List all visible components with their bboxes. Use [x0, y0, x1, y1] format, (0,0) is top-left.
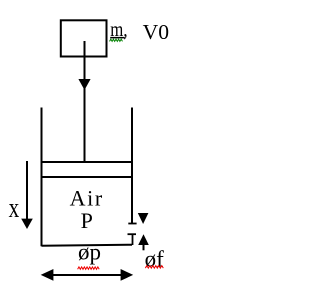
- velocity arrow shaft / piston rod wire: [84, 41, 86, 162]
- mass box m: [61, 20, 107, 56]
- cylinder right wall: [131, 108, 133, 224]
- orifice T mark bar: [128, 233, 137, 235]
- orifice T mark stem: [132, 234, 134, 245]
- piston top line: [42, 161, 133, 163]
- op right arrowhead: [121, 269, 134, 281]
- svg-text:P: P: [81, 208, 93, 233]
- orifice down triangle marker: [138, 213, 149, 224]
- orifice up triangle marker: [138, 234, 149, 245]
- svg-text:Air: Air: [70, 185, 104, 210]
- svg-text:øp: øp: [78, 239, 101, 264]
- underline under m: [110, 37, 125, 39]
- red spell squiggle under op: [78, 267, 100, 269]
- svg-text:V0: V0: [143, 20, 169, 44]
- x dimension line: [26, 161, 28, 219]
- green grammar squiggle under m: [110, 39, 123, 41]
- svg-text:x: x: [9, 192, 20, 224]
- cylinder bottom: [42, 245, 133, 246]
- op diameter dimension line: [44, 274, 130, 276]
- red spell squiggle under of: [145, 266, 163, 269]
- x dimension arrowhead: [21, 219, 33, 229]
- cylinder left wall: [41, 108, 43, 247]
- right wall bottom cap: [128, 223, 136, 225]
- velocity arrowhead: [78, 79, 90, 90]
- orifice up marker tail: [143, 245, 145, 250]
- op left arrowhead: [41, 269, 54, 281]
- piston bottom line: [42, 176, 133, 178]
